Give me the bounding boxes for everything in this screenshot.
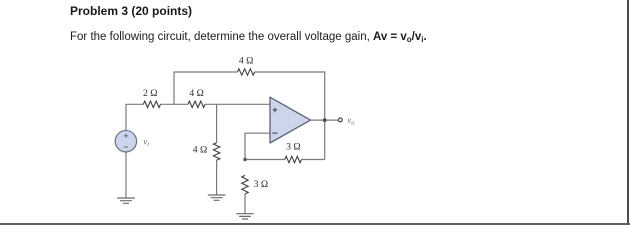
svg-text:4 Ω: 4 Ω <box>239 56 253 67</box>
svg-text:4 Ω: 4 Ω <box>189 88 203 99</box>
svg-text:vi: vi <box>143 136 149 148</box>
svg-text:4 Ω: 4 Ω <box>193 145 207 156</box>
svg-text:2 Ω: 2 Ω <box>143 88 157 99</box>
svg-text:vo: vo <box>347 115 355 127</box>
svg-text:3 Ω: 3 Ω <box>286 142 300 153</box>
svg-text:3 Ω: 3 Ω <box>254 179 268 190</box>
